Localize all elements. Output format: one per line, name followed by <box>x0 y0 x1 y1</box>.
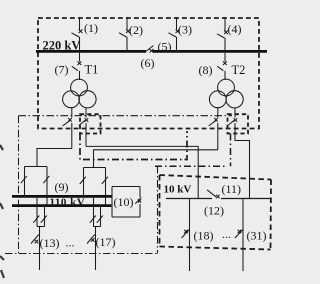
10 kV busbar right section <box>221 198 270 200</box>
svg-text:110 kV: 110 kV <box>50 196 86 208</box>
protection zone connector (bold dash-dot U) <box>80 131 187 160</box>
svg-text:10 kV: 10 kV <box>164 184 192 196</box>
10 kV switchgear zone boundary (dashed box) <box>160 175 272 250</box>
bay2 busbar-I disconnector drop <box>80 168 86 196</box>
wire T2 LV to 10 kV bus right section <box>235 108 250 198</box>
svg-text:(31): (31) <box>247 229 267 243</box>
transformer T1 primary lead wire <box>79 53 81 80</box>
svg-text:(4): (4) <box>228 22 242 36</box>
T1 110kV bay bar <box>25 166 48 168</box>
feeder (13) group <box>31 198 47 270</box>
feeder (1) wire <box>79 17 81 50</box>
10 kV busbar left section <box>166 198 212 200</box>
breaker (7) on T1 primary <box>72 61 82 70</box>
110 kV zone boundary left (dash-dot) <box>18 116 20 254</box>
breaker on T2 10kV lead <box>228 118 237 125</box>
bay1 busbar-I disconnector drop <box>21 167 27 196</box>
svg-text:...: ... <box>222 227 231 241</box>
transformer T2 (three-winding) <box>209 79 243 108</box>
110 kV busbar II <box>12 204 111 207</box>
dash-dot zone line above 10kV box <box>155 165 227 167</box>
wire T2 MV lead down <box>217 108 219 150</box>
breaker (8) on T2 primary <box>217 61 227 70</box>
breaker on T2 110kV lead <box>209 118 218 126</box>
transformer T2 primary lead wire <box>224 53 226 80</box>
svg-text:(1): (1) <box>84 21 98 35</box>
wire T1 LV lead down <box>85 108 87 147</box>
feeder (3) wire <box>176 17 178 50</box>
svg-text:T1: T1 <box>85 63 99 77</box>
feeder (18) group <box>182 199 190 272</box>
110 kV zone boundary bottom (dash-dot) <box>5 253 158 255</box>
wire T2 to 110 kV bay 2 <box>94 150 218 168</box>
dash-dot drop from T2 LV box <box>230 134 232 167</box>
wire T1 LV to 10 kV bus left section <box>86 146 198 198</box>
svg-text:(10): (10) <box>114 195 134 209</box>
svg-text:(3): (3) <box>178 23 192 37</box>
110 kV zone boundary top (dash-dot) <box>19 115 233 117</box>
svg-text:T2: T2 <box>232 63 246 77</box>
svg-text:(12): (12) <box>204 204 224 218</box>
220 kV switchgear zone boundary (dashed box) <box>38 18 259 129</box>
svg-text:(9): (9) <box>55 180 69 194</box>
breaker on T1 10kV lead <box>79 118 88 125</box>
bus coupler (10) loop <box>112 187 141 218</box>
wire T1 to 110 kV bay 1 <box>37 149 72 167</box>
svg-text:(7): (7) <box>55 63 69 77</box>
svg-text:(18): (18) <box>194 229 214 243</box>
svg-text:...: ... <box>66 236 75 250</box>
220 kV busbar right section <box>153 50 268 53</box>
svg-text:(8): (8) <box>199 63 213 77</box>
svg-text:220 kV: 220 kV <box>43 39 81 53</box>
110 kV zone boundary right (dash-dot) <box>157 166 159 254</box>
bay1 busbar-II disconnector drop <box>43 167 49 206</box>
breaker on T1 110kV lead <box>63 118 72 126</box>
svg-text:(6): (6) <box>141 56 155 70</box>
dashed box around T2 10kV breaker <box>228 114 249 133</box>
bay2 busbar-II disconnector drop <box>102 168 108 206</box>
bus sectionalizer switch (11) <box>207 190 220 199</box>
bus sectionalizer switch between (5) and (6) <box>145 46 154 53</box>
feeder (1) switch <box>72 29 83 37</box>
feeder (17) group <box>87 198 103 270</box>
feeder (4) wire <box>224 17 226 50</box>
svg-text:(13): (13) <box>40 236 60 250</box>
feeder (4) switch <box>217 30 228 38</box>
scan artifacts on left edge <box>0 145 4 278</box>
feeder (3) switch <box>169 29 180 37</box>
dashed box around T1 10kV breaker <box>80 114 101 133</box>
T2 110kV bay bar <box>84 167 106 169</box>
transformer T1 (three-winding) <box>63 79 97 108</box>
feeder (2) switch <box>119 29 130 37</box>
220 kV busbar left section <box>36 50 146 53</box>
feeder (31) group <box>235 199 243 272</box>
svg-text:(2): (2) <box>129 23 143 37</box>
svg-text:(11): (11) <box>222 182 242 196</box>
svg-text:(5): (5) <box>158 40 172 54</box>
110 kV busbar I <box>12 195 112 198</box>
wire T1 MV lead down <box>71 108 73 149</box>
svg-text:(17): (17) <box>96 235 116 249</box>
feeder (2) wire <box>126 17 128 50</box>
